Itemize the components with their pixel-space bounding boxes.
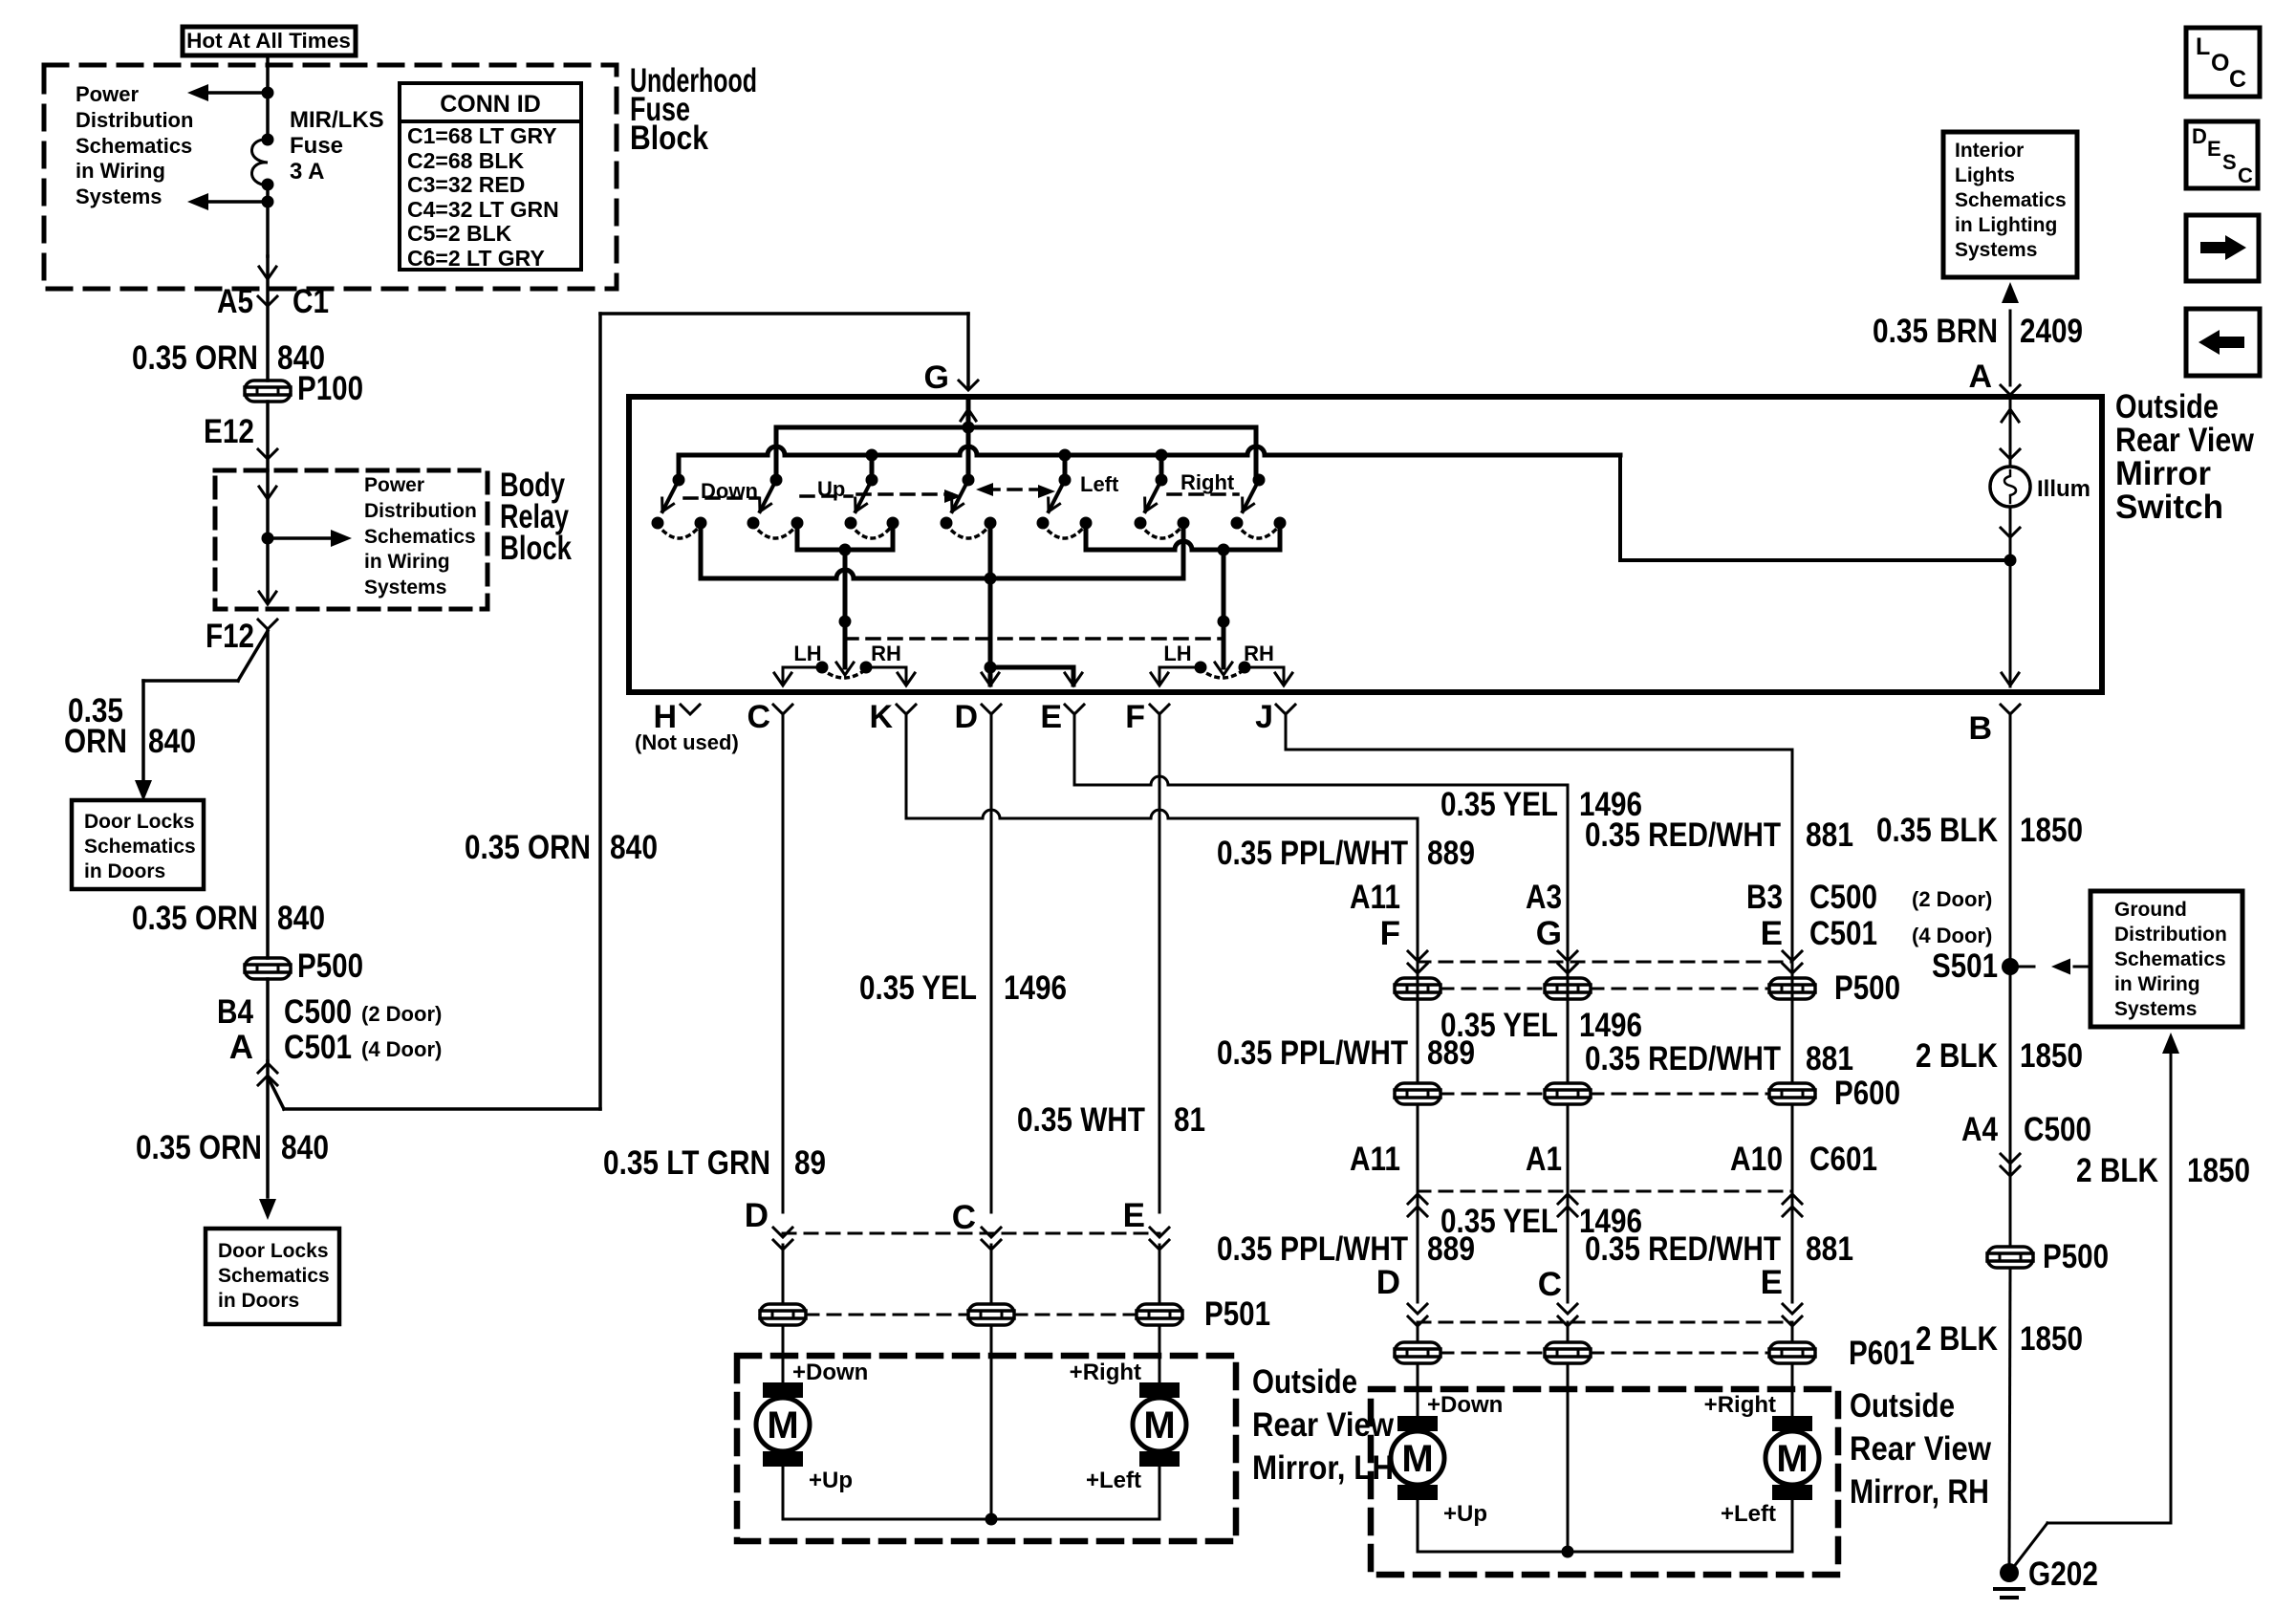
label 0.35 ORN 840 (branch) <box>64 692 196 760</box>
wire 0.35 ORN 840 (top) <box>132 256 325 381</box>
svg-text:+Left: +Left <box>1721 1501 1776 1527</box>
svg-text:Right: Right <box>1180 470 1235 494</box>
svg-text:C3=32 RED: C3=32 RED <box>407 172 525 197</box>
svg-text:S501: S501 <box>1932 947 1998 985</box>
label 0.35 ORN 840 (lower) <box>136 1129 329 1166</box>
svg-text:0.35 WHT: 0.35 WHT <box>1017 1101 1145 1139</box>
svg-text:Fuse: Fuse <box>290 133 343 159</box>
svg-text:1496: 1496 <box>1004 969 1067 1007</box>
label 0.35 RED/WHT 881 (row2) <box>1585 1040 1853 1077</box>
svg-text:P500: P500 <box>1834 969 1900 1007</box>
node: relay block tap <box>262 533 274 545</box>
connector row A11/A3/B3 C500/C501 <box>1350 879 1992 973</box>
svg-text:Outside: Outside <box>1850 1387 1955 1425</box>
svg-text:0.35 PPL/WHT: 0.35 PPL/WHT <box>1217 1034 1408 1072</box>
svg-text:A: A <box>1968 359 1992 395</box>
svg-text:0.35 PPL/WHT: 0.35 PPL/WHT <box>1217 1230 1408 1268</box>
Outside Rear View Mirror Switch label <box>2115 388 2255 526</box>
svg-text:B4: B4 <box>217 993 253 1031</box>
svg-text:Outside: Outside <box>1252 1363 1357 1401</box>
pass-through P500 (left) <box>245 947 363 985</box>
wire: D to LH mirror C <box>990 713 993 1212</box>
connector A5/C1 <box>217 283 329 320</box>
Right switch arm and contacts <box>1135 474 1190 530</box>
terminal A <box>1968 359 2020 395</box>
Door Locks Schematics box (lower) <box>206 1229 339 1324</box>
svg-text:A1: A1 <box>1526 1141 1562 1178</box>
svg-text:Distribution: Distribution <box>364 500 477 522</box>
bus: G feed (upper) <box>776 422 1256 481</box>
Up switch contact arc <box>753 525 797 538</box>
svg-text:Block: Block <box>630 120 708 157</box>
svg-text:+Up: +Up <box>1443 1501 1487 1527</box>
svg-text:+Right: +Right <box>1070 1360 1141 1385</box>
svg-text:Schematics: Schematics <box>364 526 476 548</box>
wire: ground distribution drop 2 BLK 1850 <box>2009 1033 2250 1573</box>
svg-text:0.35 RED/WHT: 0.35 RED/WHT <box>1585 1230 1781 1268</box>
DESC icon box <box>2186 121 2258 188</box>
wire: F to LH mirror E <box>1159 713 1161 1212</box>
svg-text:E: E <box>2207 137 2221 161</box>
common switch arm and contacts <box>845 474 899 530</box>
svg-text:0.35 LT GRN: 0.35 LT GRN <box>603 1144 770 1182</box>
terminal F <box>1125 699 1169 735</box>
svg-text:P501: P501 <box>1204 1295 1270 1333</box>
svg-text:Rear View: Rear View <box>2115 422 2255 459</box>
pass-through P600 row <box>1395 1075 1900 1112</box>
svg-text:P601: P601 <box>1849 1335 1915 1372</box>
motor RH vertical <box>1391 1363 1503 1527</box>
svg-text:0.35 RED/WHT: 0.35 RED/WHT <box>1585 1040 1781 1077</box>
svg-text:RH: RH <box>1244 642 1274 665</box>
selector contacts LH/RH (right group) <box>1151 642 1292 685</box>
pass-through P501 row <box>760 1295 1270 1333</box>
wire 0.35 BLK 1850 <box>1876 713 2083 1245</box>
Underhood Fuse Block dashed box <box>44 65 617 289</box>
Underhood Fuse Block label <box>630 62 757 157</box>
svg-text:Mirror, RH: Mirror, RH <box>1850 1473 1989 1511</box>
svg-text:(4 Door): (4 Door) <box>1912 924 1992 947</box>
mechanical linkage dashes <box>684 483 1238 503</box>
label 0.35 PPL/WHT 889 (row2) <box>1217 1034 1475 1072</box>
svg-text:0.35 ORN: 0.35 ORN <box>465 829 591 866</box>
center switch contact arc <box>946 525 990 538</box>
RH mirror common bus <box>1418 1363 1792 1558</box>
svg-text:F: F <box>1380 915 1400 952</box>
svg-text:840: 840 <box>148 723 196 760</box>
terminal D <box>954 699 1001 735</box>
svg-text:Illum: Illum <box>2037 476 2090 502</box>
svg-text:+Left: +Left <box>1086 1468 1141 1493</box>
node: bus tap upper <box>262 87 274 99</box>
wire: K to PPL/WHT column <box>906 713 1418 818</box>
terminal J <box>1255 699 1295 735</box>
Outside Rear View Mirror LH box <box>737 1356 1236 1541</box>
fuse MIR/LKS 3A <box>251 134 273 191</box>
terminal E <box>1040 699 1084 735</box>
svg-text:Distribution: Distribution <box>2114 924 2227 946</box>
terminal C <box>747 699 792 735</box>
svg-text:C501: C501 <box>284 1029 352 1066</box>
wire: switch feed riser 0.35 ORN 840 <box>600 314 968 1109</box>
Hot At All Times power tag <box>183 27 356 55</box>
svg-text:C4=32 LT GRN: C4=32 LT GRN <box>407 197 559 222</box>
LH mirror pins D C E <box>745 1197 1169 1250</box>
wire: E to YEL column <box>1074 713 1568 785</box>
svg-text:C501: C501 <box>1809 915 1877 952</box>
svg-text:P600: P600 <box>1834 1075 1900 1112</box>
svg-text:B3: B3 <box>1746 879 1783 916</box>
svg-text:(2 Door): (2 Door) <box>1912 887 1992 911</box>
svg-text:+Right: +Right <box>1704 1392 1776 1418</box>
svg-text:Distribution: Distribution <box>76 108 193 132</box>
pass-through P500 (B column) <box>1987 1238 2109 1275</box>
switch position labels <box>701 470 1235 503</box>
svg-text:A11: A11 <box>1350 879 1400 916</box>
label 0.35 RED/WHT 881 (row3) <box>1585 1230 1853 1268</box>
svg-text:Ground: Ground <box>2114 899 2187 921</box>
svg-text:840: 840 <box>610 829 658 866</box>
svg-text:1850: 1850 <box>2020 1320 2083 1358</box>
svg-text:C: C <box>2229 66 2246 93</box>
svg-text:Left: Left <box>1080 472 1119 496</box>
svg-text:G202: G202 <box>2028 1556 2098 1593</box>
motor RH horizontal <box>1704 1363 1819 1527</box>
svg-text:D: D <box>2192 124 2207 148</box>
svg-text:2 BLK: 2 BLK <box>2076 1152 2158 1189</box>
svg-text:M: M <box>1143 1404 1175 1447</box>
Power Distribution Schematics note (body relay) <box>364 474 477 598</box>
LOC icon box <box>2186 28 2260 97</box>
pass-through P500 row (right) <box>1395 964 1900 1083</box>
wire: arrow to power distribution (upper) <box>187 84 268 101</box>
svg-text:Block: Block <box>500 530 572 567</box>
svg-text:M: M <box>767 1404 798 1447</box>
splice S501 <box>1932 947 2089 985</box>
wire 0.35 BRN 2409 <box>1873 282 2083 385</box>
common switch 2 arm and contacts <box>1231 474 1287 530</box>
svg-text:P100: P100 <box>297 370 363 407</box>
svg-text:2 BLK: 2 BLK <box>1916 1037 1998 1075</box>
svg-text:M: M <box>1401 1438 1433 1480</box>
label 0.35 RED/WHT 881 (row1) <box>1585 816 1853 854</box>
selector contacts LH/RH (left group) <box>774 642 915 685</box>
connector row A11/A1/A10 C601 <box>1350 1104 1877 1302</box>
svg-text:C601: C601 <box>1809 1141 1877 1178</box>
CONN ID table <box>400 83 581 271</box>
svg-text:C500: C500 <box>2024 1111 2091 1148</box>
svg-text:Schematics: Schematics <box>84 836 196 858</box>
svg-text:LH: LH <box>793 642 821 665</box>
svg-text:3 A: 3 A <box>290 159 324 185</box>
svg-text:in Wiring: in Wiring <box>364 551 450 573</box>
svg-text:Door Locks: Door Locks <box>218 1240 329 1262</box>
svg-text:C: C <box>952 1199 976 1236</box>
Body Relay Block dashed box <box>215 470 487 609</box>
wire inside body relay block <box>259 470 276 602</box>
svg-text:Schematics: Schematics <box>2114 948 2226 970</box>
Outside Rear View Mirror RH box <box>1371 1389 1838 1575</box>
svg-text:2409: 2409 <box>2020 313 2083 350</box>
wire to door locks (lower) <box>266 1061 270 1197</box>
svg-text:C: C <box>747 699 770 735</box>
motor LH vertical <box>756 1327 868 1493</box>
svg-text:889: 889 <box>1427 1230 1475 1268</box>
terminal H (Not used) <box>635 699 739 754</box>
label 0.35 YEL 1496 (LH) <box>859 969 1067 1007</box>
svg-text:A10: A10 <box>1730 1141 1783 1178</box>
connector A4/C500 <box>1961 1111 2091 1176</box>
wire 0.35 RED/WHT 881 column <box>1791 750 1794 978</box>
svg-text:C1=68 LT GRY: C1=68 LT GRY <box>407 123 557 148</box>
interconnect: P5-right to P7-right <box>1086 523 1280 556</box>
label 0.35 LT GRN 89 (LH) <box>603 1144 826 1182</box>
right arrow icon box <box>2186 215 2259 281</box>
interconnect: up/common U link <box>797 523 893 556</box>
svg-text:Systems: Systems <box>76 185 162 208</box>
svg-text:0.35 BLK: 0.35 BLK <box>1876 812 1998 849</box>
RH mirror label <box>1850 1387 1992 1511</box>
svg-text:E: E <box>1040 699 1062 735</box>
svg-text:A5: A5 <box>217 283 253 320</box>
wire branch to door locks <box>135 631 268 801</box>
svg-text:F12: F12 <box>206 618 254 655</box>
wire: C to LH mirror D <box>782 713 785 1212</box>
Outside Rear View Mirror Switch box <box>629 397 2102 692</box>
motor LH horizontal <box>1070 1327 1186 1493</box>
label 0.35 YEL 1496 (row1) <box>1440 786 1642 823</box>
svg-text:C500: C500 <box>1809 879 1877 916</box>
Body Relay Block label <box>500 467 572 567</box>
Left switch arm and contacts <box>1037 474 1093 530</box>
left arrow icon box <box>2186 309 2260 376</box>
node: bus tap lower <box>262 196 274 208</box>
wire B column to ground <box>2009 1268 2010 1573</box>
svg-text:0.35 ORN: 0.35 ORN <box>132 900 258 937</box>
label 0.35 ORN 840 (mid) <box>132 900 325 937</box>
LH mirror label <box>1252 1363 1395 1487</box>
svg-text:Mirror: Mirror <box>2115 455 2211 492</box>
svg-text:L: L <box>2196 33 2210 60</box>
ground G202 <box>1995 1556 2098 1598</box>
svg-text:M: M <box>1776 1438 1808 1480</box>
svg-text:Power: Power <box>76 82 139 106</box>
LH mirror common bus <box>783 1327 1159 1526</box>
svg-text:in Doors: in Doors <box>218 1290 299 1312</box>
Left switch contact arc <box>1043 525 1086 538</box>
arrow to power distribution note <box>268 530 352 547</box>
svg-text:A11: A11 <box>1350 1141 1400 1178</box>
wire: E output <box>990 667 1082 685</box>
svg-text:89: 89 <box>794 1144 826 1182</box>
label 0.35 YEL 1496 (row2) <box>1440 1007 1642 1044</box>
svg-text:D: D <box>745 1197 769 1234</box>
label 0.35 WHT 81 (LH) <box>1017 1101 1205 1139</box>
svg-text:1496: 1496 <box>1579 1007 1642 1044</box>
svg-text:C5=2 BLK: C5=2 BLK <box>407 221 512 246</box>
wire: lamp to splice <box>2001 507 2020 686</box>
svg-text:CONN ID: CONN ID <box>440 91 541 118</box>
svg-text:G: G <box>924 359 949 396</box>
svg-text:881: 881 <box>1806 1230 1853 1268</box>
svg-text:Systems: Systems <box>1955 239 2037 261</box>
selector arm LH/RH (left) <box>836 550 854 675</box>
svg-text:Schematics: Schematics <box>218 1265 330 1287</box>
svg-text:in Lighting: in Lighting <box>1955 214 2057 236</box>
wire: D output <box>982 523 999 685</box>
label 0.35 PPL/WHT 889 (row3) <box>1217 1230 1475 1268</box>
svg-text:E12: E12 <box>204 413 254 450</box>
Down switch contact arc <box>658 525 701 538</box>
fuse label MIR/LKS <box>290 107 384 185</box>
connector F12 <box>206 618 277 655</box>
svg-text:C500: C500 <box>284 993 352 1031</box>
svg-text:Schematics: Schematics <box>76 134 192 158</box>
svg-text:0.35 YEL: 0.35 YEL <box>859 969 977 1007</box>
wire branch from mirror switch feed <box>269 1078 600 1109</box>
svg-text:in Wiring: in Wiring <box>76 159 165 183</box>
svg-text:(Not used): (Not used) <box>635 730 739 754</box>
common switch contact arc <box>851 525 893 538</box>
svg-text:2 BLK: 2 BLK <box>1916 1320 1998 1358</box>
svg-text:Interior: Interior <box>1955 140 2024 162</box>
label 0.35 PPL/WHT 889 (row1) <box>1217 835 1475 872</box>
svg-text:881: 881 <box>1806 1040 1853 1077</box>
svg-text:B: B <box>1968 710 1992 747</box>
svg-text:D: D <box>954 699 978 735</box>
svg-text:A4: A4 <box>1961 1111 1998 1148</box>
center switch arm and contacts <box>941 474 997 530</box>
svg-text:Power: Power <box>364 474 424 496</box>
Right switch contact arc <box>1140 525 1183 538</box>
svg-text:1850: 1850 <box>2020 812 2083 849</box>
svg-text:Lights: Lights <box>1955 164 2015 186</box>
svg-text:K: K <box>869 699 893 735</box>
svg-text:A3: A3 <box>1526 879 1562 916</box>
svg-text:C2=68 BLK: C2=68 BLK <box>407 148 524 173</box>
svg-text:P500: P500 <box>297 947 363 985</box>
svg-text:0.35 PPL/WHT: 0.35 PPL/WHT <box>1217 835 1408 872</box>
connector E12 <box>204 402 277 470</box>
svg-text:0.35 ORN: 0.35 ORN <box>132 339 258 377</box>
selector mechanical link <box>845 637 1224 641</box>
svg-text:0.35 BRN: 0.35 BRN <box>1873 313 1998 350</box>
label 0.35 YEL 1496 (row3) <box>1440 1203 1642 1240</box>
svg-text:Systems: Systems <box>2114 998 2197 1020</box>
Down switch arm and contacts <box>652 474 707 530</box>
svg-text:Switch: Switch <box>2115 489 2223 526</box>
svg-text:P500: P500 <box>2043 1238 2109 1275</box>
svg-text:MIR/LKS: MIR/LKS <box>290 107 384 133</box>
svg-text:D: D <box>1376 1264 1400 1301</box>
svg-text:1850: 1850 <box>2187 1152 2250 1189</box>
svg-text:O: O <box>2211 50 2229 76</box>
svg-text:Schematics: Schematics <box>1955 189 2067 211</box>
svg-text:E: E <box>1761 915 1783 952</box>
svg-text:E: E <box>1123 1197 1145 1234</box>
wire 0.35 PPL/WHT 889 column <box>1417 818 1419 978</box>
svg-text:840: 840 <box>281 1129 329 1166</box>
label 2 BLK 1850 (lower) <box>1916 1320 2083 1358</box>
svg-text:+Down: +Down <box>792 1360 868 1385</box>
wire: G entering switch <box>961 397 976 480</box>
wire 0.35 ORN 840 to P500 <box>266 629 270 958</box>
connector B4/A C500/C501 <box>217 979 442 1085</box>
arrow into door locks box <box>259 1199 276 1220</box>
wire: arrow to power distribution (lower) <box>187 193 268 210</box>
svg-text:LH: LH <box>1163 642 1191 665</box>
wire: G drop <box>966 314 970 386</box>
RH mirror pins D C E <box>1376 1264 1802 1326</box>
svg-text:840: 840 <box>277 900 325 937</box>
pass-through P100 <box>245 370 363 407</box>
svg-text:0.35 RED/WHT: 0.35 RED/WHT <box>1585 816 1781 854</box>
svg-text:0.35 YEL: 0.35 YEL <box>1440 786 1558 823</box>
svg-text:Hot At All Times: Hot At All Times <box>186 29 351 53</box>
svg-text:0.35 ORN: 0.35 ORN <box>136 1129 262 1166</box>
svg-text:889: 889 <box>1427 1034 1475 1072</box>
svg-text:RH: RH <box>871 642 901 665</box>
bus: illumination (lower) <box>679 446 2004 560</box>
svg-text:+Up: +Up <box>809 1468 853 1493</box>
svg-text:Systems: Systems <box>364 577 446 598</box>
interconnect: P1-right to P6-right bus <box>701 523 1183 585</box>
svg-text:S: S <box>2222 150 2237 174</box>
lamp Illum <box>1990 397 2090 507</box>
svg-text:+Down: +Down <box>1427 1392 1503 1418</box>
svg-text:in Doors: in Doors <box>84 860 165 882</box>
wires into LH mirror <box>783 1245 1159 1302</box>
svg-text:C1: C1 <box>292 283 329 320</box>
wire: J to RED/WHT column <box>1286 713 1792 750</box>
terminal B <box>1968 705 2020 747</box>
Interior Lights Schematics box <box>1943 132 2077 277</box>
svg-text:Door Locks: Door Locks <box>84 811 195 833</box>
svg-text:81: 81 <box>1174 1101 1205 1139</box>
Up switch arm and contacts <box>747 474 804 530</box>
svg-text:881: 881 <box>1806 816 1853 854</box>
svg-text:A: A <box>229 1029 253 1066</box>
svg-text:Outside: Outside <box>2115 388 2219 425</box>
wire: battery feed vertical <box>266 55 270 256</box>
wire 0.35 YEL 1496 column <box>1567 785 1570 978</box>
svg-text:F: F <box>1125 699 1145 735</box>
arrow: exits relay block <box>259 592 276 604</box>
svg-text:(2 Door): (2 Door) <box>361 1002 442 1026</box>
svg-text:889: 889 <box>1427 835 1475 872</box>
svg-text:C: C <box>1538 1266 1562 1303</box>
svg-text:C6=2 LT GRY: C6=2 LT GRY <box>407 246 545 271</box>
svg-text:(4 Door): (4 Door) <box>361 1037 442 1061</box>
arrow: feed exits underhood box <box>259 267 276 279</box>
Ground Distribution Schematics box <box>2090 891 2242 1027</box>
Power Distribution Schematics note (underhood) <box>76 82 193 208</box>
svg-text:Rear View: Rear View <box>1850 1430 1992 1468</box>
selector arm LH/RH (right) <box>1215 550 1232 675</box>
common switch 2 contact arc <box>1237 525 1280 538</box>
svg-text:1850: 1850 <box>2020 1037 2083 1075</box>
svg-text:J: J <box>1255 699 1273 735</box>
svg-text:G: G <box>1536 915 1562 952</box>
terminal G <box>924 359 978 396</box>
label 0.35 ORN 840 (riser) <box>465 829 658 866</box>
pass-through P601 row <box>1395 1322 1915 1372</box>
svg-text:ORN: ORN <box>64 723 127 760</box>
terminal K <box>869 699 916 735</box>
Door Locks Schematics box (upper) <box>72 800 204 889</box>
svg-text:E: E <box>1761 1264 1783 1301</box>
svg-text:in Wiring: in Wiring <box>2114 973 2200 995</box>
